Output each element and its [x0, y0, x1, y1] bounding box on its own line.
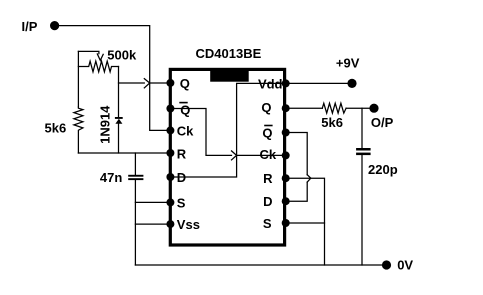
terminal I/P [50, 21, 59, 30]
svg-text:Ck: Ck [177, 124, 194, 139]
wire Q2 to R2 resistor [286, 107, 323, 109]
IC U1 CD4013BE body [170, 69, 284, 245]
wire down to D2 [286, 182, 308, 201]
wire S2 pin to ground column [286, 222, 325, 224]
wire R1 row (timing node) [78, 152, 170, 154]
wire O/P node down to C2 [361, 108, 363, 148]
resistor VR1 500k [78, 61, 118, 72]
pin dot Vss [166, 220, 174, 228]
svg-text:S: S [263, 216, 272, 231]
wire I/P to Ck1 [59, 26, 170, 131]
svg-text:CD4013BE: CD4013BE [196, 46, 262, 61]
pin dot Vdd [282, 79, 290, 87]
wire left vertical node A (500k left / 5k6 top) [77, 51, 79, 107]
capacitor C1 47n [134, 153, 136, 175]
wire D1 to Vdd (internal) [170, 83, 285, 177]
svg-text:0V: 0V [397, 257, 413, 272]
pin dot Q2 [282, 104, 290, 112]
svg-text:Ck: Ck [259, 147, 276, 162]
wire Q1 row to hop [119, 82, 145, 84]
svg-text:1N914: 1N914 [97, 105, 112, 144]
svg-text:5k6: 5k6 [45, 120, 67, 135]
capacitor C2 220p [356, 148, 371, 151]
diode D1 1N914 cathode bar [115, 117, 123, 119]
wire Vss to ground column [135, 223, 170, 225]
svg-text:Q: Q [261, 100, 271, 115]
arrow wiper of VR1 [97, 54, 103, 61]
svg-text:Vss: Vss [177, 217, 200, 232]
svg-text:O/P: O/P [371, 115, 394, 130]
hop crossover at I/P line [144, 79, 149, 88]
svg-text:R: R [263, 171, 273, 186]
pin dot R1 [166, 149, 174, 157]
svg-text:Q: Q [262, 126, 272, 141]
terminal 0V [382, 260, 391, 269]
pin dot Qbar2 [282, 129, 290, 137]
wire wiper top [78, 51, 99, 53]
pin dot Ck1 [166, 126, 174, 134]
wire R2 to O/P [346, 107, 369, 109]
svg-text:+9V: +9V [336, 55, 360, 70]
svg-text:47n: 47n [100, 170, 122, 185]
wire 500k right down to diode [118, 67, 120, 118]
hop crossover at D1-Vdd line [232, 151, 237, 160]
terminal +9V [347, 79, 356, 88]
pin dot Q1 [166, 79, 174, 87]
wire S1 to ground column [135, 201, 170, 203]
svg-text:S: S [177, 196, 186, 211]
IC notch mark [210, 69, 249, 81]
svg-text:Q: Q [180, 76, 190, 91]
wire 0V rail [135, 264, 382, 266]
wire Qbar1 to Ck2 (internal) [170, 109, 231, 156]
svg-text:500k: 500k [107, 47, 137, 62]
pin dot D2 [282, 197, 290, 205]
wire Qbar2 down [286, 133, 308, 175]
svg-text:Q: Q [180, 102, 190, 117]
svg-text:220p: 220p [368, 162, 398, 177]
resistor R2 5k6 [322, 103, 346, 113]
pin dot Ck2 [282, 151, 290, 159]
svg-text:5k6: 5k6 [321, 115, 343, 130]
pin dot S2 [282, 219, 290, 227]
svg-text:D: D [263, 194, 272, 209]
hop crossover at R2 wire [307, 175, 311, 182]
wire R2 pin to ground column [286, 178, 325, 265]
svg-text:R: R [177, 146, 187, 161]
wire hop to Q1 pin [150, 82, 171, 84]
svg-text:I/P: I/P [22, 19, 38, 34]
pin dot D1 [166, 173, 174, 181]
pin dot Qbar1 [166, 105, 174, 113]
diode D1 triangle [115, 119, 122, 124]
wire Vdd to +9V [286, 82, 348, 84]
terminal O/P [369, 104, 378, 113]
wire diode anode down [118, 123, 120, 153]
pin dot S1 [166, 198, 174, 206]
resistor R1 5k6 vertical [74, 107, 83, 153]
pin dot R2 [282, 174, 290, 182]
